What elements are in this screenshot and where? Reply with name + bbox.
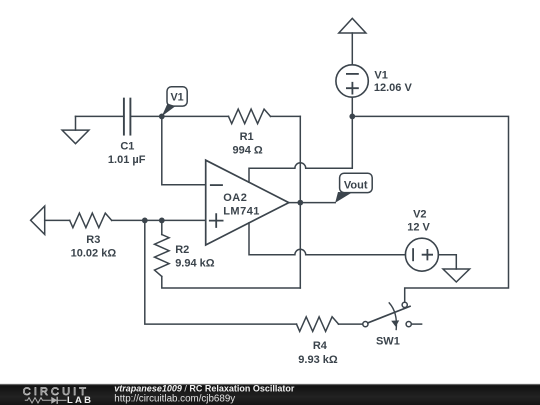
ground (V2) bbox=[443, 269, 470, 282]
power flag (supply triangle) bbox=[339, 18, 366, 33]
svg-text:C1: C1 bbox=[120, 140, 134, 152]
node V1 label flag bbox=[162, 87, 187, 117]
label V1 value bbox=[374, 70, 413, 95]
junction dot R4 branch bbox=[142, 218, 148, 224]
wire V1 node to right rail, down to switch top bbox=[352, 116, 508, 302]
op-amp OA2 bbox=[206, 160, 289, 245]
label R3 value bbox=[71, 234, 117, 259]
label SW1 bbox=[376, 335, 400, 347]
capacitor C1 bbox=[124, 99, 130, 135]
wire node V1 to R1 bbox=[162, 115, 229, 117]
port input arrow bbox=[31, 206, 45, 234]
svg-text:10.02 kΩ: 10.02 kΩ bbox=[71, 247, 117, 259]
junction dot V1 supply bbox=[349, 114, 355, 120]
wire ground to C1 bbox=[76, 115, 124, 117]
logo squiggle bbox=[25, 397, 67, 404]
label C1 value bbox=[108, 140, 146, 166]
wire op-amp output bbox=[289, 202, 335, 204]
voltage source V1 bbox=[336, 65, 368, 97]
svg-text:OA2: OA2 bbox=[223, 192, 247, 204]
svg-text:R2: R2 bbox=[175, 244, 189, 256]
svg-text:LM741: LM741 bbox=[223, 205, 260, 217]
svg-text:V2: V2 bbox=[413, 209, 426, 221]
voltage source V2 bbox=[405, 238, 438, 271]
svg-text:994 Ω: 994 Ω bbox=[232, 144, 262, 156]
footer bar bbox=[0, 384, 540, 405]
wire V2 to ground bbox=[438, 255, 456, 269]
wire op-amp V- pin to V2 bbox=[249, 223, 405, 255]
wire node V1 down to inverting input bbox=[162, 116, 206, 184]
junction dot output bbox=[297, 200, 303, 206]
svg-text:vtrapanese1009 / RC Relaxation: vtrapanese1009 / RC Relaxation Oscillato… bbox=[114, 384, 295, 394]
wire C1 to node V1 junction bbox=[130, 115, 161, 117]
junction dot R2 branch bbox=[159, 218, 165, 224]
resistor R1 bbox=[229, 109, 271, 124]
resistor R3 bbox=[70, 213, 112, 228]
label OA2 LM741 bbox=[223, 192, 260, 218]
label R1 value bbox=[232, 131, 262, 156]
svg-text:http://circuitlab.com/cjb689y: http://circuitlab.com/cjb689y bbox=[114, 393, 235, 404]
label V2 value bbox=[407, 209, 430, 234]
wire non-inverting branch down to R4 bbox=[145, 220, 297, 324]
wire power flag to V1 source bbox=[351, 33, 353, 64]
node Vout label flag bbox=[335, 173, 372, 203]
label R4 value bbox=[298, 340, 338, 366]
label R2 value bbox=[175, 244, 215, 270]
svg-text:R4: R4 bbox=[313, 340, 328, 352]
resistor R2 bbox=[155, 235, 170, 277]
wire port to R3 bbox=[45, 219, 70, 221]
switch SW1 bbox=[363, 302, 412, 329]
wire op-amp V+ pin to V1 node bbox=[249, 116, 352, 182]
wire R4 to switch common bbox=[339, 323, 363, 325]
junction dot node V1 bbox=[159, 114, 165, 120]
svg-text:1.01 µF: 1.01 µF bbox=[108, 154, 146, 166]
svg-text:12.06 V: 12.06 V bbox=[374, 82, 413, 94]
ground (top-left) bbox=[62, 116, 89, 143]
svg-text:LAB: LAB bbox=[67, 395, 93, 405]
svg-text:9.94 kΩ: 9.94 kΩ bbox=[175, 257, 215, 269]
resistor R4 bbox=[297, 317, 339, 332]
wire R3 to non-inverting input bbox=[112, 219, 206, 221]
svg-text:R3: R3 bbox=[86, 234, 100, 246]
svg-text:Vout: Vout bbox=[344, 179, 368, 191]
wire R2 top lead bbox=[161, 220, 163, 234]
wire feedback column (output net vertical) bbox=[299, 116, 301, 288]
svg-text:9.93 kΩ: 9.93 kΩ bbox=[298, 354, 338, 366]
wire switch throw stub bbox=[411, 323, 421, 325]
wire output net to R2 bottom bbox=[162, 277, 300, 289]
svg-text:SW1: SW1 bbox=[376, 335, 400, 347]
svg-text:V1: V1 bbox=[374, 70, 387, 82]
svg-text:R1: R1 bbox=[240, 131, 254, 143]
wire R1 to feedback column bbox=[271, 115, 301, 117]
svg-text:12 V: 12 V bbox=[407, 221, 430, 233]
wire V1 source to junction bbox=[351, 97, 353, 116]
svg-text:V1: V1 bbox=[170, 91, 183, 103]
